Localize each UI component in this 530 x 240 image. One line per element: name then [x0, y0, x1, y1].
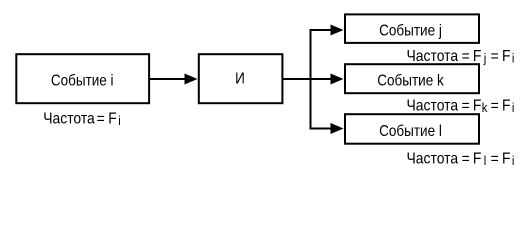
svg-text:Частота=Fl=Fi: Частота=Fl=Fi: [407, 150, 515, 169]
box: Событие j: [345, 14, 479, 43]
svg-text:Событие i: Событие i: [51, 73, 114, 90]
box: Событие l: [345, 114, 479, 144]
svg-text:Частота=Fi: Частота=Fi: [43, 110, 121, 129]
wire: branch to box j: [310, 29, 333, 31]
box: И (AND gate): [199, 54, 283, 103]
box: Событие i: [16, 54, 149, 103]
box: Событие k: [345, 64, 479, 93]
svg-text:Событие j: Событие j: [379, 23, 442, 40]
svg-text:Событие k: Событие k: [377, 73, 444, 90]
svg-text:Частота=Fk=Fi: Частота=Fk=Fi: [407, 97, 515, 116]
wire: branch to box l: [310, 128, 333, 130]
wire: vertical branch line: [310, 29, 312, 130]
svg-text:Событие l: Событие l: [379, 123, 442, 140]
flowchart: event i -> AND -> events j,k,l: [0, 0, 530, 182]
wire: AND output to branch, arrow into box k: [282, 78, 332, 80]
svg-text:И: И: [235, 71, 245, 88]
wire: arrow from box i to AND: [149, 78, 185, 80]
svg-text:Частота=Fj=Fi: Частота=Fj=Fi: [407, 47, 515, 66]
